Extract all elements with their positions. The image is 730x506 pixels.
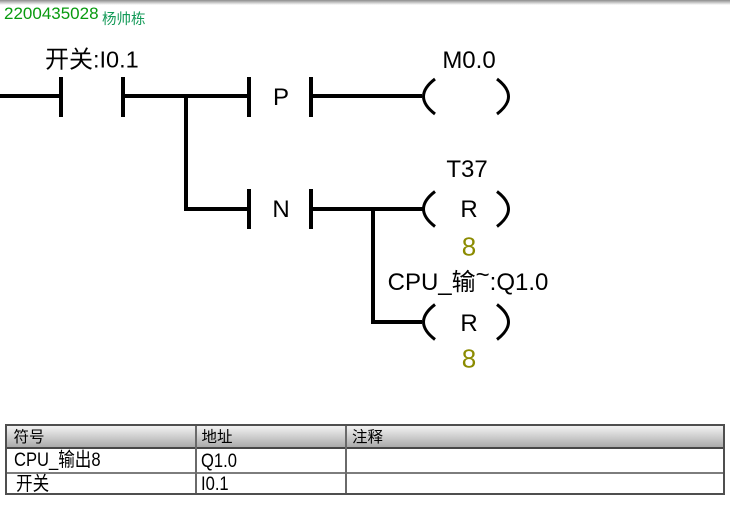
contact 开关:I0.1 left bar <box>59 77 63 117</box>
svg-text:开关:I0.1: 开关:I0.1 <box>45 47 139 74</box>
coil M0.0 right paren <box>497 79 509 114</box>
contact N right bar <box>309 189 313 229</box>
coil T37 left paren <box>424 192 436 227</box>
wire P contact to coil M0.0 <box>313 94 422 98</box>
table row 2 <box>7 474 723 493</box>
student name <box>102 8 146 29</box>
contact N left bar <box>247 189 251 229</box>
header 注释 <box>352 430 383 446</box>
symbol table <box>5 424 725 495</box>
wire branch to coil Q1.0 <box>371 320 422 324</box>
coil Q1.0 right paren <box>497 305 509 340</box>
student id <box>4 4 99 24</box>
svg-text:CPU_输~:Q1.0: CPU_输~:Q1.0 <box>388 262 549 297</box>
coil Q1.0 left paren <box>424 305 436 340</box>
svg-text:R: R <box>460 196 477 223</box>
column separator 2 <box>345 426 347 493</box>
top shadow bar <box>0 0 730 5</box>
cell Q1.0 <box>201 452 237 472</box>
contact P left bar <box>247 77 251 117</box>
header 地址 <box>202 430 233 446</box>
contact 开关:I0.1 right bar <box>121 77 125 117</box>
wire left rail to contact I0.1 <box>0 94 59 98</box>
column separator 1 <box>195 426 197 493</box>
wire N branch horizontal <box>184 207 247 211</box>
wire branch vertical 2 <box>371 207 375 324</box>
table row 1 <box>7 449 723 474</box>
wire N contact to coil T37 <box>313 207 423 211</box>
coil T37 right paren <box>497 192 509 227</box>
cell I0.1 <box>201 475 229 495</box>
wire branch vertical 1 <box>184 94 188 211</box>
svg-text:N: N <box>272 196 289 223</box>
svg-text:T37: T37 <box>446 156 487 183</box>
table header row <box>7 426 723 449</box>
coil M0.0 left paren <box>424 79 436 114</box>
svg-text:P: P <box>273 84 289 111</box>
cell CPU_输出8 <box>14 451 101 471</box>
svg-text:8: 8 <box>462 344 476 374</box>
contact P right bar <box>309 77 313 117</box>
cell 开关 <box>16 475 49 495</box>
wire contact to P contact <box>125 94 247 98</box>
svg-text:R: R <box>460 310 477 337</box>
svg-text:8: 8 <box>462 232 476 262</box>
svg-text:M0.0: M0.0 <box>442 47 495 74</box>
header 符号 <box>14 430 45 446</box>
